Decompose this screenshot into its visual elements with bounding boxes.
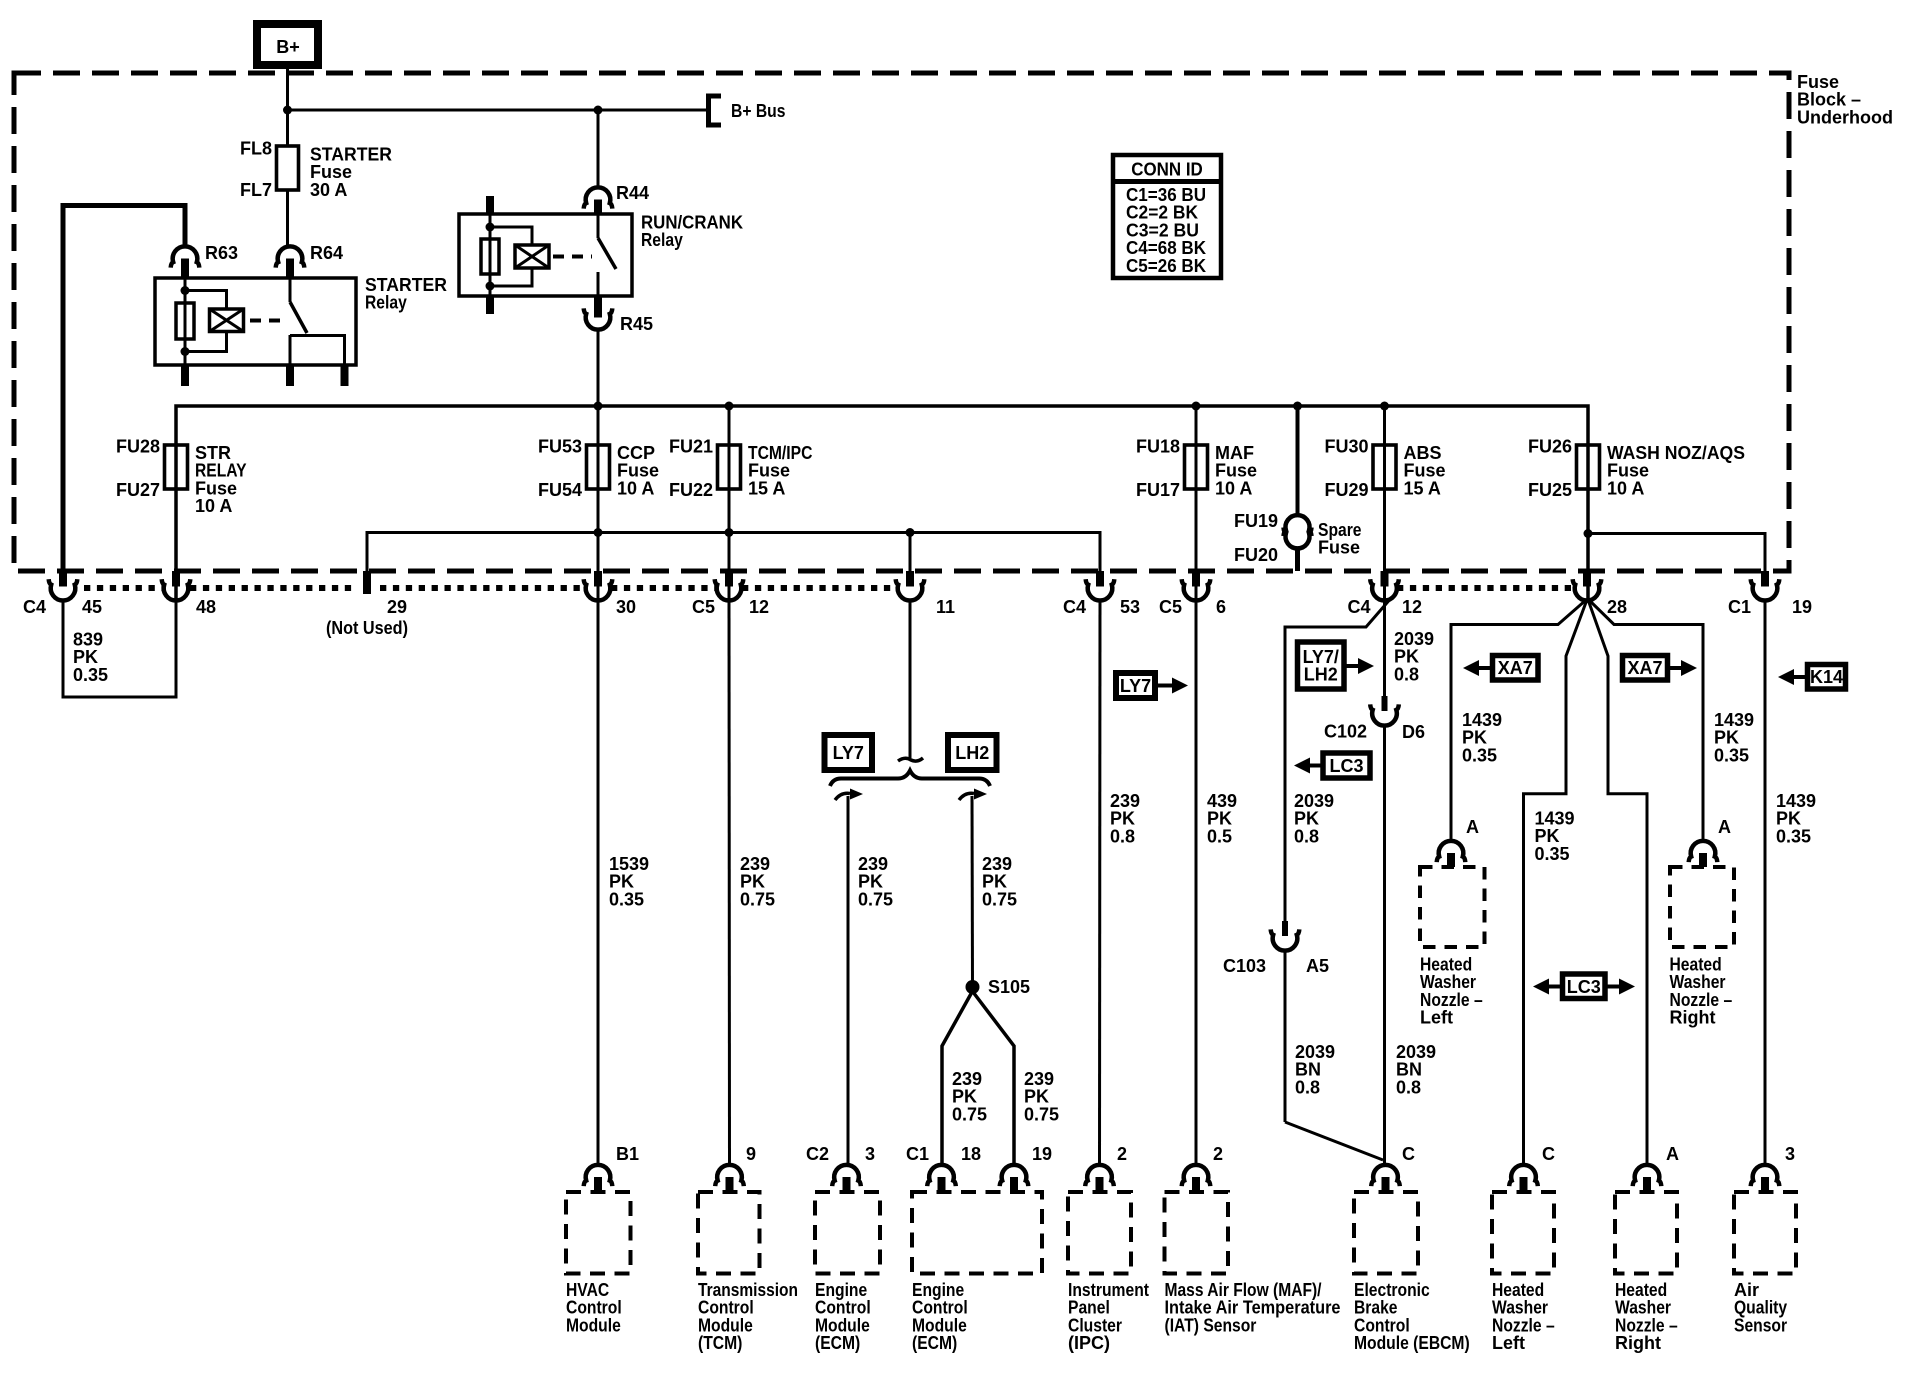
starter relay coil resistor — [176, 303, 194, 339]
svg-text:0.35: 0.35 — [1714, 745, 1749, 765]
arrow LC3 double right — [1605, 985, 1619, 989]
svg-text:FU19: FU19 — [1234, 511, 1278, 531]
Engine module box — [815, 1192, 880, 1274]
svg-text:LC3: LC3 — [1329, 756, 1363, 776]
svg-text:10 A: 10 A — [195, 496, 232, 516]
starter relay coil leg — [184, 278, 187, 365]
svg-text:Module (EBCM): Module (EBCM) — [1354, 1333, 1470, 1353]
svg-text:Left: Left — [1420, 1008, 1453, 1028]
pin 48 fuse block connector — [172, 571, 180, 587]
arrow K14 left — [1794, 675, 1808, 679]
svg-text:B+: B+ — [276, 37, 300, 57]
wire TCM/IPC fuse column — [728, 406, 731, 600]
wire CCP fuse column — [597, 406, 600, 600]
svg-text:S105: S105 — [988, 977, 1030, 997]
svg-text:30: 30 — [616, 597, 636, 617]
Heated module box — [1615, 1192, 1677, 1274]
Transmission module box — [698, 1192, 760, 1274]
spare fuse FU19/FU20 — [1296, 406, 1300, 516]
Electronic module box — [1354, 1192, 1418, 1274]
svg-text:C5: C5 — [1159, 597, 1182, 617]
svg-text:C: C — [1402, 1144, 1415, 1164]
fuse FU26/FU25 WASH NOZ/AQS — [1577, 445, 1600, 489]
svg-text:2: 2 — [1117, 1144, 1127, 1164]
svg-text:XA7: XA7 — [1498, 658, 1533, 678]
option box K14 — [1808, 665, 1846, 690]
svg-text:LC3: LC3 — [1567, 977, 1601, 997]
svg-text:LY7: LY7 — [1120, 676, 1151, 696]
node run/crank coil top — [486, 223, 495, 232]
svg-text:LY7: LY7 — [833, 743, 864, 763]
svg-text:C4: C4 — [1347, 597, 1370, 617]
wire A5 down — [1284, 951, 1287, 1122]
node bus junction — [1380, 402, 1389, 411]
connector C103 pin A5 — [1282, 921, 1288, 936]
run/crank coil bottom pin stub — [486, 296, 494, 314]
Heated module box — [1492, 1192, 1554, 1274]
node coil top — [181, 286, 190, 295]
svg-text:18: 18 — [961, 1144, 981, 1164]
pin 19 Engine connector — [1000, 1165, 1029, 1186]
wire 839 PK pin45 to pin48 — [63, 601, 176, 698]
option box LH2 engine — [948, 735, 997, 770]
svg-text:19: 19 — [1032, 1144, 1052, 1164]
svg-text:0.35: 0.35 — [1776, 826, 1811, 846]
heated washer nozzle Left box — [1420, 867, 1485, 947]
wire wash noz branch — [1588, 534, 1765, 572]
svg-text:B1: B1 — [616, 1144, 639, 1164]
pin C Heated connector — [1509, 1165, 1538, 1186]
svg-text:0.75: 0.75 — [952, 1104, 987, 1124]
svg-text:FL8: FL8 — [240, 139, 272, 159]
svg-text:45: 45 — [82, 597, 102, 617]
svg-text:Module: Module — [566, 1315, 621, 1335]
svg-text:0.75: 0.75 — [740, 889, 775, 909]
pin R63 connector — [171, 246, 200, 267]
wire pin30 to HVAC B1 — [597, 601, 600, 1165]
svg-text:C2: C2 — [806, 1144, 829, 1164]
wire pin53 to IPC 2 — [1098, 601, 1102, 1165]
svg-text:12: 12 — [1402, 597, 1422, 617]
wire pin6 to MAF 2 — [1195, 601, 1198, 1165]
svg-text:C5=26 BK: C5=26 BK — [1126, 256, 1206, 276]
option box LY7 (ipc) — [1116, 673, 1155, 698]
svg-text:A: A — [1466, 817, 1479, 837]
svg-text:FU54: FU54 — [538, 480, 582, 500]
svg-text:0.35: 0.35 — [1535, 844, 1570, 864]
connector C102 pin D6 — [1382, 696, 1388, 711]
wire pin12 to TCM 9 — [728, 601, 732, 1165]
svg-text:Left: Left — [1492, 1333, 1525, 1353]
pin C Electronic connector — [1371, 1165, 1400, 1186]
svg-text:A5: A5 — [1306, 956, 1329, 976]
svg-text:R64: R64 — [310, 243, 343, 263]
dotted connector boundary row — [84, 585, 163, 591]
pin A Heated connector — [1633, 1165, 1662, 1186]
svg-text:C4: C4 — [1063, 597, 1086, 617]
wire pin11 drop — [909, 533, 912, 572]
pin B1 HVAC connector — [584, 1165, 613, 1186]
svg-text:0.8: 0.8 — [1294, 826, 1319, 846]
Engine module box — [912, 1192, 1042, 1274]
node run/crank coil bottom — [486, 282, 495, 291]
svg-text:R44: R44 — [616, 183, 649, 203]
wire MAF fuse column — [1195, 406, 1198, 600]
node dist pin11 — [906, 528, 915, 537]
svg-text:C5: C5 — [692, 597, 715, 617]
wire starter fuse to R64 — [286, 190, 289, 247]
svg-text:FU27: FU27 — [116, 480, 160, 500]
pin 12 fuse block connector — [1381, 571, 1389, 587]
option box XA7 left — [1493, 656, 1539, 681]
run/crank switch output — [597, 272, 600, 296]
svg-text:0.75: 0.75 — [1024, 1104, 1059, 1124]
pin A nozzle Left — [1437, 841, 1466, 862]
svg-text:FU29: FU29 — [1324, 480, 1368, 500]
Air module box — [1734, 1192, 1796, 1274]
fuse FU30/FU29 ABS — [1373, 445, 1396, 489]
svg-text:0.8: 0.8 — [1295, 1077, 1320, 1097]
wire pin28 to washer pump A — [1589, 601, 1648, 1165]
svg-text:Underhood: Underhood — [1797, 107, 1893, 127]
pin R44 connector — [584, 187, 613, 208]
run/crank switch input — [597, 214, 600, 238]
svg-text:19: 19 — [1792, 597, 1812, 617]
run/crank switch blade — [598, 238, 616, 269]
svg-text:53: 53 — [1120, 597, 1140, 617]
svg-text:0.8: 0.8 — [1394, 664, 1419, 684]
svg-text:0.8: 0.8 — [1396, 1077, 1421, 1097]
node bus junction — [1293, 402, 1302, 411]
fuse FU21/FU22 TCM/IPC — [718, 445, 741, 489]
pin 12 fuse block connector — [725, 571, 733, 587]
starter relay pin stub mid — [286, 365, 294, 386]
svg-text:FU28: FU28 — [116, 437, 160, 457]
svg-text:3: 3 — [865, 1144, 875, 1164]
svg-text:Sensor: Sensor — [1734, 1315, 1787, 1335]
svg-text:(Not Used): (Not Used) — [326, 618, 408, 638]
run/crank suppression branch — [490, 227, 532, 245]
node coil bottom — [181, 347, 190, 356]
wire pin12 to C102 — [1383, 601, 1386, 697]
run/crank coil leg — [489, 214, 492, 296]
svg-text:FU25: FU25 — [1528, 480, 1572, 500]
run/crank actuator dashed link — [553, 255, 592, 259]
pin 2 Instrument connector — [1085, 1165, 1114, 1186]
option box LC3 (c102) — [1323, 753, 1370, 778]
Instrument module box — [1068, 1192, 1131, 1274]
svg-text:C: C — [1542, 1144, 1555, 1164]
arrow XA7 left — [1479, 666, 1493, 670]
svg-text:0.5: 0.5 — [1207, 826, 1232, 846]
node dist CCP — [594, 528, 603, 537]
starter relay coil core box — [210, 309, 244, 332]
svg-text:R45: R45 — [620, 314, 653, 334]
wire D6 to EBCM C — [1383, 726, 1386, 1165]
svg-text:D6: D6 — [1402, 722, 1425, 742]
node bus junction — [1192, 402, 1201, 411]
pin 6 fuse block connector — [1192, 571, 1200, 587]
svg-text:0.8: 0.8 — [1110, 826, 1135, 846]
wire to R44 — [597, 110, 600, 187]
run/crank coil resistor — [481, 239, 499, 274]
svg-text:A: A — [1666, 1144, 1679, 1164]
splice S105 — [966, 980, 980, 994]
pin 11 fuse block connector — [906, 571, 914, 587]
wire end tick — [898, 758, 923, 761]
svg-text:FU30: FU30 — [1324, 437, 1368, 457]
run/crank coil core box — [515, 245, 549, 268]
svg-text:48: 48 — [196, 597, 216, 617]
arrow LY7/LH2 to wire — [1344, 664, 1358, 668]
pin 3 Air connector — [1751, 1165, 1780, 1186]
pin 29 stub (not used) — [363, 571, 371, 594]
branch hook LY7 — [835, 793, 850, 800]
svg-text:(ECM): (ECM) — [912, 1333, 957, 1353]
heated washer nozzle Right box — [1670, 867, 1734, 947]
wire ABS fuse column — [1383, 406, 1386, 600]
svg-text:(ECM): (ECM) — [815, 1333, 860, 1353]
svg-text:FU20: FU20 — [1234, 545, 1278, 565]
svg-text:FU53: FU53 — [538, 437, 582, 457]
option box LY7/LH2 — [1298, 642, 1345, 689]
node dist TCM — [725, 528, 734, 537]
svg-text:10 A: 10 A — [1215, 478, 1252, 498]
node bus junction — [594, 402, 603, 411]
svg-text:0.35: 0.35 — [73, 665, 108, 685]
fuse block underhood dashed border — [14, 73, 1789, 571]
svg-text:C4: C4 — [23, 597, 46, 617]
B+ battery feed box — [257, 24, 318, 65]
fuse FU18/FU17 MAF — [1185, 445, 1208, 489]
svg-text:LH2: LH2 — [1304, 665, 1338, 685]
pin 30 fuse block connector — [594, 571, 602, 587]
fuse FU28/FU27 STR — [165, 445, 188, 489]
node junction run/crank feed — [594, 106, 603, 115]
svg-text:R63: R63 — [205, 243, 238, 263]
svg-text:Right: Right — [1670, 1008, 1716, 1028]
starter relay fixed contact — [290, 336, 345, 366]
svg-text:FU26: FU26 — [1528, 437, 1572, 457]
svg-text:29: 29 — [387, 597, 407, 617]
arrow XA7 right — [1668, 666, 1682, 670]
svg-text:FU18: FU18 — [1136, 437, 1180, 457]
pin R45 connector — [584, 308, 613, 329]
wire pin19 to AQS 3 — [1764, 601, 1767, 1165]
wire distribution pin29 to pin53 — [367, 533, 1100, 572]
branch hook LH2 — [959, 793, 974, 800]
svg-text:FU21: FU21 — [669, 437, 713, 457]
node wash noz junction — [1584, 529, 1593, 538]
arrow LC3 left — [1310, 764, 1323, 768]
starter relay actuator dashed link — [250, 319, 286, 323]
svg-text:FU22: FU22 — [669, 480, 713, 500]
pin 19 fuse block connector — [1761, 571, 1769, 587]
svg-text:C102: C102 — [1324, 722, 1367, 742]
run/crank switch bottom stub — [594, 296, 602, 318]
wire LY7 branch to ECM C2-3 — [847, 796, 850, 1165]
starter relay pin stub right — [341, 365, 349, 386]
wire B+ down to starter fuse — [286, 64, 289, 146]
svg-text:15 A: 15 A — [748, 478, 785, 498]
svg-text:Relay: Relay — [641, 230, 683, 250]
pin 28 fuse block connector — [1583, 571, 1591, 587]
svg-text:FU17: FU17 — [1136, 480, 1180, 500]
starter relay suppression branch — [185, 291, 227, 310]
wire pin28 to left nozzle — [1451, 600, 1586, 840]
fuse block internal bus — [176, 406, 1588, 600]
wire pin45 up to starter relay coil (heavy) — [63, 206, 185, 572]
svg-text:0.35: 0.35 — [609, 889, 644, 909]
svg-text:K14: K14 — [1810, 667, 1843, 687]
run/crank relay box — [459, 214, 632, 296]
svg-text:2: 2 — [1213, 1144, 1223, 1164]
wire branch diagonal from pin12 — [1285, 597, 1392, 921]
svg-text:FL7: FL7 — [240, 180, 272, 200]
svg-text:Relay: Relay — [365, 293, 407, 313]
svg-text:C1: C1 — [906, 1144, 929, 1164]
pin 18 Engine connector — [927, 1165, 956, 1186]
svg-text:LH2: LH2 — [955, 743, 989, 763]
run/crank coil top pin stub — [486, 196, 494, 214]
fuse FU53/FU54 CCP — [587, 445, 610, 489]
svg-text:28: 28 — [1607, 597, 1627, 617]
pin A nozzle Right — [1689, 841, 1718, 862]
option box LC3 double — [1563, 974, 1606, 999]
svg-text:10 A: 10 A — [617, 478, 654, 498]
wire pin11 down — [909, 601, 912, 759]
svg-text:C103: C103 — [1223, 956, 1266, 976]
svg-text:(TCM): (TCM) — [698, 1333, 742, 1353]
svg-text:3: 3 — [1785, 1144, 1795, 1164]
svg-text:Right: Right — [1615, 1333, 1661, 1353]
arrow LC3 double left — [1549, 985, 1563, 989]
svg-text:0.75: 0.75 — [858, 889, 893, 909]
pin 2 Mass Air Flow (MAF)/ connector — [1182, 1165, 1211, 1186]
fuse FL8/FL7 STARTER 30A — [277, 146, 299, 190]
svg-text:A: A — [1718, 817, 1731, 837]
starter relay box — [155, 278, 356, 365]
svg-text:(IPC): (IPC) — [1068, 1333, 1110, 1353]
svg-text:0.75: 0.75 — [982, 889, 1017, 909]
pin 53 fuse block connector — [1096, 571, 1104, 587]
Mass Air Flow (MAF)/ module box — [1165, 1192, 1229, 1274]
svg-text:0.35: 0.35 — [1462, 745, 1497, 765]
starter relay switch blade — [290, 302, 307, 333]
wire LH2 branch to S105 — [971, 796, 975, 986]
svg-text:9: 9 — [746, 1144, 756, 1164]
option box XA7 right — [1623, 656, 1668, 681]
wire A5 diagonal to EBCM C — [1285, 1122, 1383, 1160]
wire S105 to ECM pin18 — [942, 992, 972, 1165]
HVAC module box — [566, 1192, 631, 1274]
arrow LY7 to maf wire — [1155, 684, 1172, 688]
option box LY7 engine — [825, 735, 873, 770]
svg-text:10 A: 10 A — [1607, 478, 1644, 498]
svg-text:XA7: XA7 — [1627, 658, 1662, 678]
starter relay switch output — [289, 335, 292, 365]
pin R64 connector — [276, 246, 305, 267]
svg-text:Fuse: Fuse — [1318, 538, 1360, 558]
wire R45 to bus — [597, 330, 600, 406]
starter relay switch input — [289, 278, 292, 302]
svg-text:C1: C1 — [1728, 597, 1751, 617]
wire pin28 to washer pump C — [1524, 601, 1587, 1165]
svg-text:CONN ID: CONN ID — [1131, 160, 1203, 180]
svg-text:B+ Bus: B+ Bus — [731, 101, 786, 121]
CONN ID table — [1113, 155, 1221, 278]
starter relay pin stub left — [181, 365, 189, 386]
pin 3 Engine connector — [832, 1165, 861, 1186]
wire S105 to ECM pin19 — [973, 992, 1014, 1165]
svg-text:12: 12 — [749, 597, 769, 617]
svg-text:15 A: 15 A — [1404, 478, 1441, 498]
svg-text:6: 6 — [1216, 597, 1226, 617]
wire B+ bus horizontal — [288, 109, 708, 112]
B+ Bus terminal bracket — [709, 96, 722, 125]
svg-text:30 A: 30 A — [310, 180, 347, 200]
node bus junction — [725, 402, 734, 411]
pin 9 Transmission connector — [715, 1165, 744, 1186]
svg-text:11: 11 — [936, 597, 955, 617]
svg-text:(IAT) Sensor: (IAT) Sensor — [1165, 1315, 1257, 1335]
wire pin28 to right nozzle — [1589, 600, 1703, 840]
node junction B+ feed — [283, 106, 292, 115]
pin 45 fuse block connector — [59, 571, 67, 587]
engine option brace — [830, 771, 990, 787]
